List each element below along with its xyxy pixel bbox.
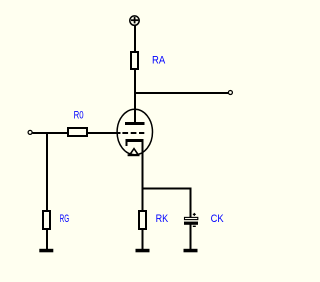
svg-text:CK: CK <box>211 213 225 225</box>
svg-text:RG: RG <box>60 213 70 225</box>
svg-text:R0: R0 <box>74 109 84 121</box>
svg-text:RA: RA <box>152 55 166 67</box>
svg-text:RK: RK <box>156 213 169 225</box>
